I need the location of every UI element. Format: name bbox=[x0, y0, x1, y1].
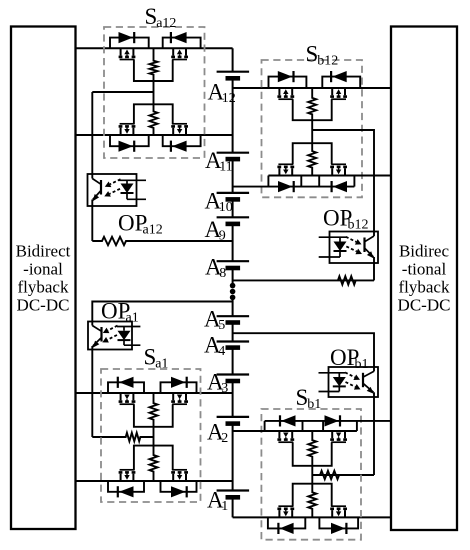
wire S_b12 gate drive to OP_b12 bbox=[312, 130, 374, 232]
svg-text:Bidirect: Bidirect bbox=[16, 242, 71, 261]
svg-text:a12: a12 bbox=[156, 16, 176, 31]
wire battery string segment 10 bbox=[232, 381, 234, 417]
wire S_a12 gate center link bbox=[153, 81, 155, 104]
wire S_b1 gate center link bbox=[311, 466, 313, 484]
OP_a12 LED bbox=[119, 179, 146, 181]
wire S_b12 bottom rail (to right box) bbox=[268, 175, 391, 177]
svg-text:11: 11 bbox=[219, 160, 232, 175]
MOSFET S_a12 top-left bbox=[120, 48, 122, 55]
MOSFET S_b1 bottom-right bbox=[331, 510, 333, 517]
left converter box (Bidirectional flyback DC-DC) bbox=[11, 27, 76, 530]
body diode S_a1 bottom-right (points right) bbox=[171, 486, 186, 497]
dashed box S_b1 bbox=[261, 409, 361, 540]
svg-text:flyback: flyback bbox=[18, 278, 69, 297]
wire S_a1 top rail (left box to battery) bbox=[76, 392, 233, 394]
ellipsis dots (omitted cells A7 A6) bbox=[230, 283, 236, 289]
svg-text:12: 12 bbox=[222, 91, 236, 106]
wire S_b1 top rail from battery bbox=[233, 430, 357, 432]
svg-text:b1: b1 bbox=[355, 357, 369, 372]
resistor S_b12 bottom gate bbox=[308, 143, 316, 175]
wire S_b12 top gate leads and bus bbox=[293, 99, 332, 120]
wire battery string segment 9 bbox=[232, 348, 234, 375]
svg-text:DC-DC: DC-DC bbox=[17, 296, 70, 315]
wire S_b1 top diode line (to right box) bbox=[265, 420, 391, 422]
resistor S_a12 bottom gate bbox=[150, 104, 158, 135]
svg-text:5: 5 bbox=[218, 318, 225, 333]
MOSFET S_b1 bottom-left bbox=[278, 510, 280, 517]
body diode S_b1 top-right (points right) bbox=[325, 415, 339, 426]
body diode S_b1 top-left (points left) bbox=[281, 415, 295, 426]
optocoupler OP_b12 box bbox=[330, 232, 379, 264]
resistor S_a12 top gate bbox=[150, 48, 158, 81]
MOSFET S_b1 top-left bbox=[278, 431, 280, 438]
MOSFET S_b1 top-right bbox=[331, 431, 333, 438]
svg-text:a1: a1 bbox=[155, 356, 168, 371]
wire S_a12 top rail (left box to battery top) bbox=[76, 47, 233, 49]
svg-text:DC-DC: DC-DC bbox=[398, 296, 451, 315]
MOSFET S_b12 top-left bbox=[278, 88, 280, 95]
wire OP_b1 collector from battery tap bbox=[233, 333, 374, 367]
dashed box S_a12 bbox=[104, 27, 205, 158]
svg-text:4: 4 bbox=[218, 344, 225, 359]
MOSFET S_b12 top-right bbox=[331, 88, 333, 95]
MOSFET S_a1 top-right bbox=[172, 393, 174, 400]
svg-text:a12: a12 bbox=[143, 222, 163, 237]
svg-text:a1: a1 bbox=[126, 310, 139, 325]
body diode S_a12 top-left (points right) bbox=[119, 32, 134, 43]
wire OP_a12 collector from S_a12 gate node bbox=[91, 92, 93, 174]
wire battery string segment 8 bbox=[232, 323, 234, 342]
MOSFET S_a1 bottom-right bbox=[172, 474, 174, 481]
resistor S_b1 top gate bbox=[308, 431, 316, 466]
diode loop wires S_b12 top bbox=[269, 77, 307, 88]
MOSFET S_a12 top-right bbox=[172, 48, 174, 55]
OP_a12 phototransistor bbox=[100, 180, 102, 195]
battery cell A1 bbox=[217, 489, 250, 491]
OP_a1 phototransistor bbox=[100, 327, 102, 342]
wire S_a12 bottom rail (left box to battery) bbox=[76, 134, 233, 136]
diode loop wires S_a1 bottom bbox=[108, 481, 144, 492]
battery cell A8 bbox=[217, 260, 250, 262]
battery cell A12 bbox=[217, 71, 250, 73]
wire battery string segment 7 bbox=[232, 300, 234, 316]
OP_b12 LED bbox=[319, 236, 346, 238]
resistor S_a1 bottom gate bbox=[150, 446, 158, 481]
OP_b1 LED bbox=[319, 372, 346, 374]
resistor OP_a1 to S_a1 gate node bbox=[92, 433, 153, 441]
body diode S_b1 bottom-left (points left) bbox=[280, 523, 294, 534]
wire OP_b1 emitter down bbox=[373, 397, 375, 475]
OP_b1 light arrows bbox=[345, 372, 355, 377]
battery cell A11 bbox=[217, 152, 250, 154]
wire S_b12 gate center link bbox=[311, 120, 313, 143]
battery cell A3 bbox=[217, 373, 250, 375]
svg-text:-ional: -ional bbox=[23, 260, 63, 279]
svg-text:1: 1 bbox=[221, 499, 228, 514]
diode loop wires S_b1 bottom bbox=[268, 517, 305, 528]
diode loop wires S_a12 top bbox=[110, 38, 149, 49]
wire S_b1 bottom gate bus and leads bbox=[293, 484, 332, 507]
right converter box (Bidirectional flyback DC-DC) bbox=[391, 27, 457, 531]
OP_b12 phototransistor bbox=[363, 238, 365, 253]
body diode S_b1 bottom-right (points right) bbox=[331, 523, 345, 534]
wire OP_b12 emitter down bbox=[373, 263, 375, 280]
OP_a12 light arrows bbox=[110, 179, 120, 184]
svg-text:10: 10 bbox=[219, 200, 233, 215]
wire S_b12 bottom gate bus and leads bbox=[293, 143, 332, 164]
MOSFET S_a1 top-left bbox=[120, 393, 122, 400]
wire battery string segment 3 bbox=[232, 159, 234, 193]
wire battery string segment 12 bbox=[232, 497, 234, 517]
body diode S_b12 top-right (points left) bbox=[332, 71, 346, 82]
battery cell A4 bbox=[217, 340, 250, 342]
wire battery string segment 5 bbox=[232, 224, 234, 261]
wire battery string segment 11 bbox=[232, 424, 234, 491]
battery cell A5 bbox=[217, 315, 250, 317]
wire S_a12 gate drive from OP_a12 bbox=[92, 91, 153, 93]
wire battery string segment 6 bbox=[232, 268, 234, 283]
resistor S_a1 top gate bbox=[150, 393, 158, 427]
wire S_a1 bottom rail (left box to battery) bbox=[76, 480, 233, 482]
diode loop wires S_a12 bottom bbox=[110, 135, 149, 146]
OP_a1 LED bbox=[117, 326, 140, 328]
wire S_b12 bottom diode line from battery bbox=[233, 186, 355, 188]
resistor OP_b1 to S_b1 gate node bbox=[312, 471, 374, 479]
body diode S_a12 bottom-right (points left) bbox=[172, 141, 187, 152]
OP_b12 light arrows bbox=[346, 237, 356, 242]
wire OP_a12 emitter down bbox=[91, 206, 93, 241]
wire OP_a1 collector from battery tap bbox=[92, 302, 232, 322]
diode loop wires S_a1 top bbox=[108, 382, 144, 393]
body diode S_b12 bottom-right (points left) bbox=[333, 181, 347, 192]
MOSFET S_a1 bottom-left bbox=[120, 474, 122, 481]
optocoupler OP_a1 box bbox=[88, 322, 132, 350]
battery cell A10 bbox=[217, 192, 250, 194]
svg-text:2: 2 bbox=[221, 431, 228, 446]
dashed box S_b12 bbox=[262, 60, 363, 197]
wire OP_a1 emitter down bbox=[91, 350, 93, 438]
resistor S_b1 bottom gate bbox=[308, 484, 316, 518]
resistor OP_b12 to battery tap A8-dots bbox=[233, 276, 374, 284]
optocoupler OP_b1 box bbox=[329, 367, 379, 397]
wire battery string segment 1 bbox=[232, 48, 234, 71]
wire S_a1 bottom gate bus and leads bbox=[134, 446, 173, 471]
svg-text:flyback: flyback bbox=[399, 278, 450, 297]
svg-text:b1: b1 bbox=[307, 397, 321, 412]
wire S_a1 top gate leads and bus bbox=[134, 404, 173, 427]
diode loop risers S_b1 top bbox=[264, 421, 266, 431]
body diode S_a12 bottom-left (points right) bbox=[119, 141, 134, 152]
body diode S_b12 bottom-left (points right) bbox=[278, 181, 293, 192]
MOSFET S_a12 bottom-right bbox=[172, 128, 174, 135]
optocoupler OP_a12 box bbox=[88, 174, 137, 206]
svg-text:-tional: -tional bbox=[402, 260, 447, 279]
MOSFET S_a12 bottom-left bbox=[120, 128, 122, 135]
body diode S_a12 top-right (points left) bbox=[172, 32, 187, 43]
resistor OP_a12 to battery tap A9-A8 bbox=[92, 237, 232, 245]
wire S_a12 top gate leads and bus bbox=[134, 60, 173, 82]
OP_b1 phototransistor bbox=[362, 373, 364, 387]
wire S_a12 bottom gate bus and leads bbox=[134, 104, 173, 124]
MOSFET S_b12 bottom-left bbox=[278, 168, 280, 175]
wire S_b1 bottom rail (battery to right box) bbox=[233, 516, 391, 518]
svg-text:b12: b12 bbox=[348, 217, 369, 232]
body diode S_a1 bottom-left (points left) bbox=[119, 486, 134, 497]
wire battery string segment 2 bbox=[232, 78, 234, 152]
svg-text:Bidirec: Bidirec bbox=[399, 242, 449, 261]
battery cell A2 bbox=[217, 416, 250, 418]
diode loop risers S_b12 bottom bbox=[267, 176, 269, 187]
dashed box S_a1 bbox=[101, 369, 201, 502]
svg-text:b12: b12 bbox=[317, 53, 338, 68]
OP_a1 light arrows bbox=[108, 326, 118, 331]
resistor S_b12 top gate bbox=[308, 88, 316, 120]
wire S_b12 top rail (battery to right box) bbox=[233, 87, 391, 89]
wire battery string segment 4 bbox=[232, 199, 234, 217]
body diode S_b12 top-left (points right) bbox=[278, 71, 293, 82]
battery cell A9 bbox=[217, 216, 250, 218]
body diode S_a1 top-right (points right) bbox=[171, 377, 186, 388]
wire S_b1 top gate leads and bus bbox=[293, 442, 332, 466]
MOSFET S_b12 bottom-right bbox=[331, 168, 333, 175]
wire S_a1 gate center link bbox=[153, 427, 155, 446]
svg-text:8: 8 bbox=[219, 266, 226, 281]
body diode S_a1 top-left (points left) bbox=[119, 377, 134, 388]
